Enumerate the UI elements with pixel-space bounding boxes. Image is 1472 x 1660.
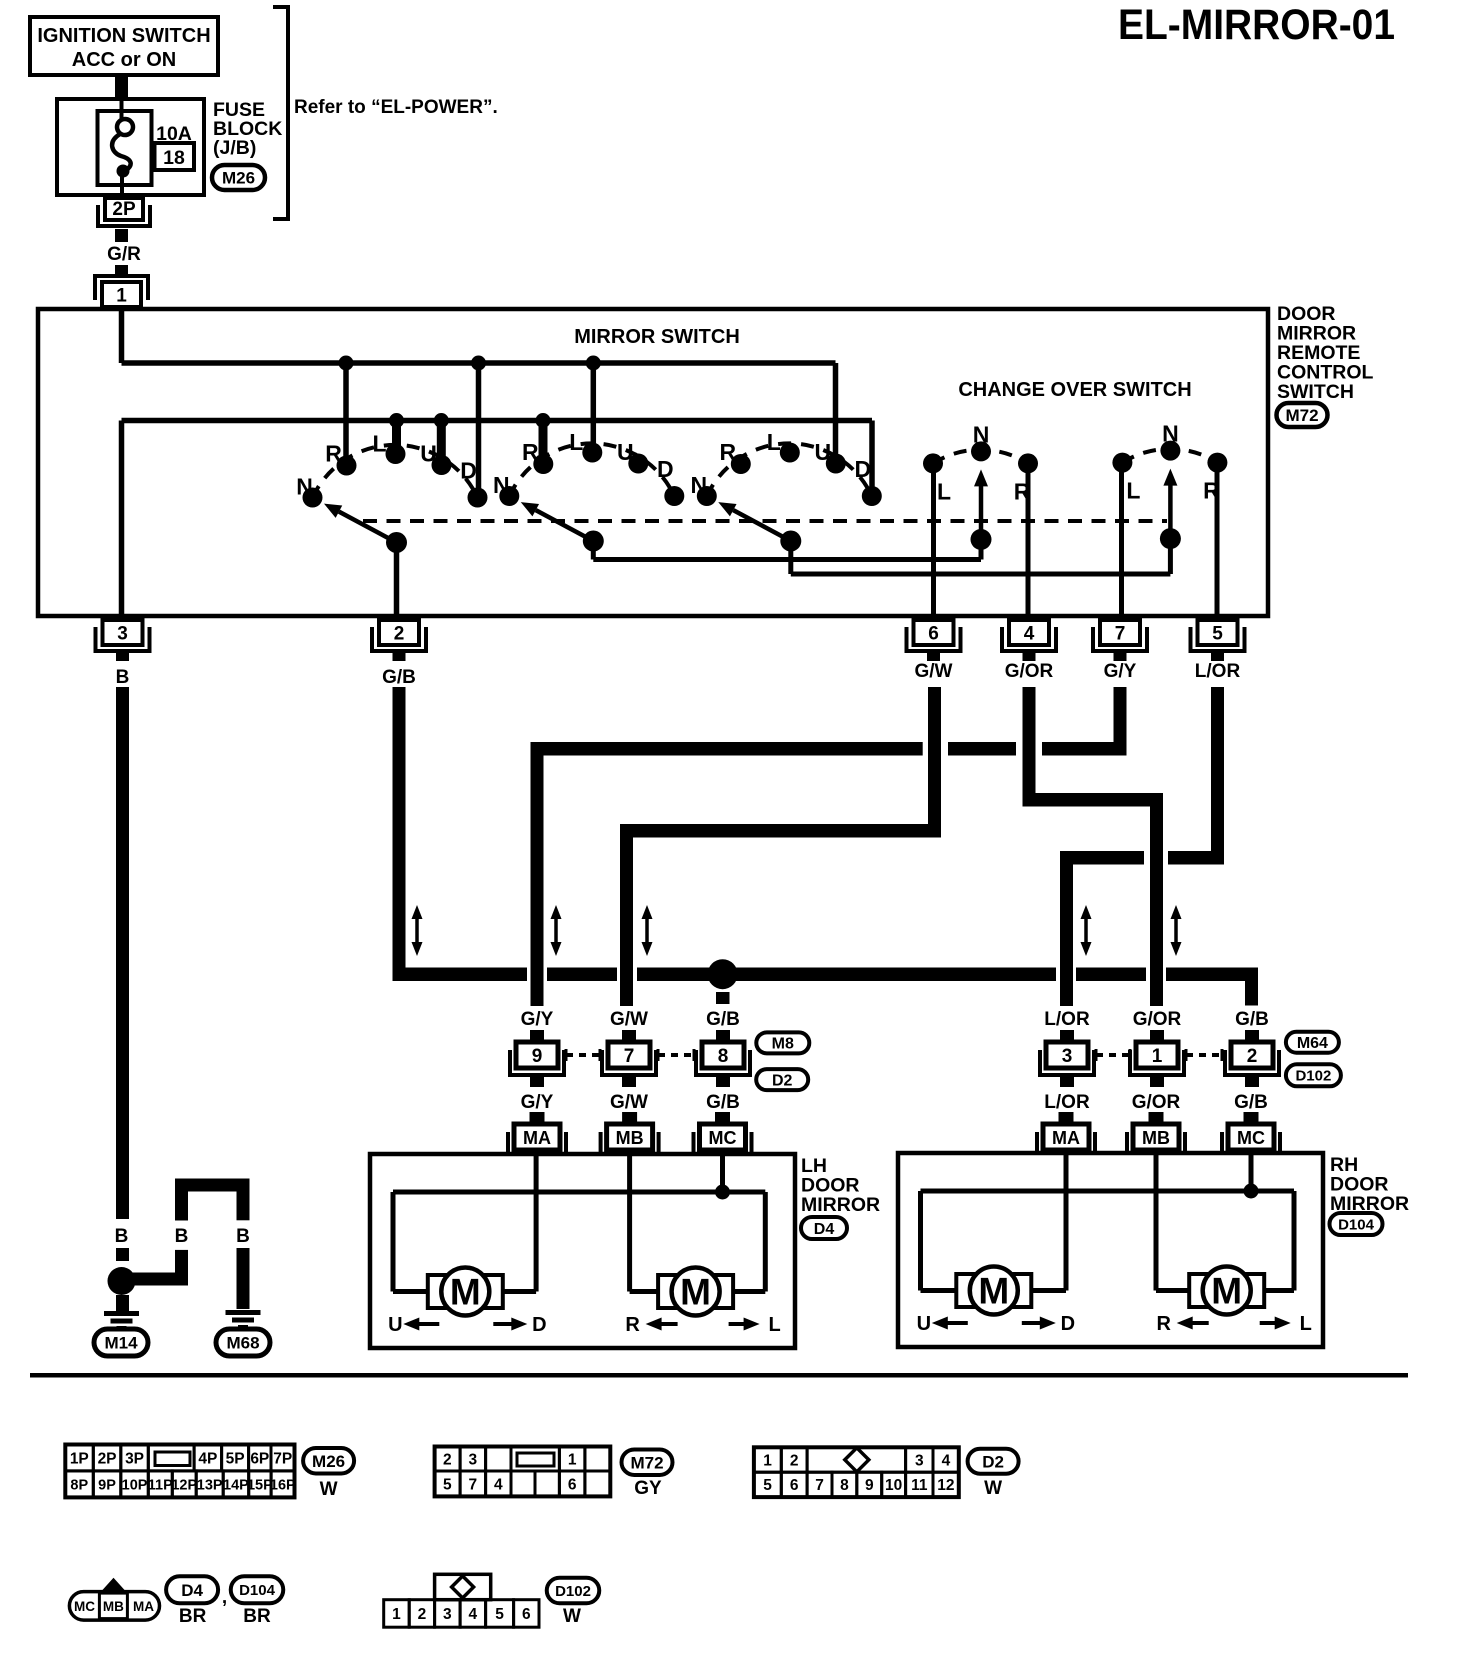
connector ref D102 oval <box>1286 1064 1341 1086</box>
stub pin2 <box>393 650 406 661</box>
change over switch pod B <box>1122 449 1217 463</box>
svg-text:U: U <box>814 439 831 465</box>
bus G/B horizontal seg5 <box>1166 968 1258 982</box>
svg-text:D2: D2 <box>982 1452 1004 1471</box>
svg-text:2P: 2P <box>98 1450 117 1467</box>
stub pin3 <box>116 650 129 661</box>
connector M8-9 <box>530 1030 544 1042</box>
svg-text:1: 1 <box>568 1451 577 1468</box>
svg-text:(J/B): (J/B) <box>213 137 256 159</box>
svg-text:11: 11 <box>911 1477 928 1494</box>
svg-text:M: M <box>680 1272 711 1313</box>
svg-text:L/OR: L/OR <box>1195 661 1241 682</box>
ignition switch box <box>30 17 218 75</box>
connector ref D2 footer oval <box>968 1449 1019 1474</box>
svg-text:5: 5 <box>1212 624 1223 645</box>
svg-text:D: D <box>460 458 477 484</box>
dashed neutral line <box>363 519 1167 523</box>
svg-text:D: D <box>657 456 674 482</box>
svg-text:G/W: G/W <box>610 1009 648 1030</box>
stub B left <box>116 1248 129 1261</box>
svg-text:6: 6 <box>928 624 939 645</box>
svg-text:W: W <box>984 1478 1002 1499</box>
svg-text:M72: M72 <box>630 1453 663 1472</box>
mirror switch pod 2 <box>509 443 674 496</box>
svg-text:,: , <box>222 1587 227 1608</box>
svg-text:12: 12 <box>937 1477 954 1494</box>
stub pin5 <box>1211 653 1224 661</box>
connector MC LH <box>715 1112 730 1124</box>
svg-text:L: L <box>937 478 951 504</box>
svg-text:7P: 7P <box>273 1450 292 1467</box>
svg-text:L: L <box>1126 478 1140 504</box>
connector ref M72 footer oval <box>622 1449 673 1475</box>
junction dot L2 tap <box>586 356 601 371</box>
svg-text:D2: D2 <box>772 1072 793 1089</box>
connector ref D2 oval <box>756 1069 808 1090</box>
svg-text:BR: BR <box>243 1606 271 1627</box>
svg-text:R: R <box>522 439 539 465</box>
bus G/B horizontal seg2 <box>547 968 617 982</box>
svg-text:L: L <box>372 431 386 457</box>
svg-text:10P: 10P <box>122 1477 148 1493</box>
svg-text:4: 4 <box>1024 624 1035 645</box>
junction dot G/B tap M8-8 <box>708 959 738 989</box>
svg-text:D104: D104 <box>239 1582 276 1599</box>
svg-text:U: U <box>420 441 437 467</box>
svg-text:G/B: G/B <box>1235 1009 1269 1030</box>
connector pin 4 <box>1009 620 1049 645</box>
svg-text:Refer to “EL-POWER”.: Refer to “EL-POWER”. <box>294 97 498 118</box>
svg-text:1: 1 <box>1152 1046 1163 1067</box>
connector face M26 <box>65 1445 294 1498</box>
svg-text:MC: MC <box>709 1128 737 1148</box>
wire RA to pin 4 <box>1026 463 1031 616</box>
connector pin 7 <box>1100 620 1140 645</box>
svg-text:W: W <box>563 1606 581 1627</box>
svg-text:18: 18 <box>163 147 185 169</box>
connector 2P <box>105 198 143 220</box>
connector M64-1 <box>1150 1030 1164 1042</box>
svg-text:U: U <box>388 1314 402 1336</box>
svg-text:U: U <box>917 1313 931 1335</box>
svg-text:D: D <box>532 1314 546 1336</box>
arrow wire G/Y continues <box>554 915 558 946</box>
svg-text:1: 1 <box>116 286 127 307</box>
connector ref M72 oval <box>1277 403 1328 427</box>
mirror switch pod 3 <box>707 443 872 496</box>
svg-text:M8: M8 <box>772 1036 794 1053</box>
svg-text:1: 1 <box>392 1606 401 1623</box>
svg-text:L: L <box>1300 1313 1312 1335</box>
svg-text:MB: MB <box>103 1599 124 1614</box>
svg-text:4: 4 <box>494 1476 503 1493</box>
svg-text:9: 9 <box>532 1046 543 1067</box>
connector 1 into M72 <box>95 276 148 300</box>
svg-text:M26: M26 <box>222 169 255 188</box>
wire B jumper <box>115 1273 187 1286</box>
wire G/OR pin4 to M64-1 <box>1023 687 1036 807</box>
stub pin7 <box>1114 653 1127 661</box>
svg-text:7: 7 <box>469 1476 478 1493</box>
connector ref M26 oval <box>212 165 265 190</box>
svg-text:MA: MA <box>523 1128 551 1148</box>
svg-text:8P: 8P <box>70 1477 88 1493</box>
connector MB LH <box>622 1112 637 1124</box>
svg-text:N: N <box>493 472 510 498</box>
svg-text:MB: MB <box>1142 1128 1170 1148</box>
arrow wire G/W continues <box>645 915 649 946</box>
svg-text:G/B: G/B <box>706 1009 740 1030</box>
wire G/W pin6 to M8-7 <box>928 687 941 837</box>
connector ref D4 footer oval <box>166 1576 218 1603</box>
svg-text:L/OR: L/OR <box>1044 1009 1090 1030</box>
svg-text:D102: D102 <box>1295 1068 1331 1085</box>
svg-text:U: U <box>617 439 634 465</box>
wire pod1 pivot to pin 2 <box>394 543 400 617</box>
svg-text:1: 1 <box>763 1452 772 1469</box>
wire ignition switch to fuse block <box>115 75 128 101</box>
arrow wire B continues <box>415 915 419 946</box>
stub B right <box>237 1248 250 1309</box>
connector MB RH <box>1149 1112 1164 1124</box>
svg-text:N: N <box>973 421 990 447</box>
junction dot ground <box>108 1267 136 1295</box>
connector ref D102 footer oval <box>547 1578 600 1604</box>
connector MA LH <box>530 1112 545 1124</box>
svg-text:L: L <box>768 1314 780 1336</box>
svg-text:12P: 12P <box>171 1477 197 1493</box>
junction dot R1 tap <box>339 356 354 371</box>
svg-text:2: 2 <box>790 1452 799 1469</box>
svg-text:G/OR: G/OR <box>1133 1009 1182 1030</box>
svg-text:MC: MC <box>74 1599 95 1614</box>
svg-text:D: D <box>854 456 871 482</box>
wire L/OR pin5 to M64-3 <box>1211 687 1224 864</box>
svg-text:5: 5 <box>495 1606 504 1623</box>
wire G/Y pin7 to M8-9 <box>1114 687 1127 756</box>
svg-text:D: D <box>1061 1313 1075 1335</box>
connector M8-7 <box>622 1030 636 1042</box>
svg-text:3: 3 <box>915 1452 924 1469</box>
refer bracket <box>273 7 288 219</box>
svg-text:D104: D104 <box>1338 1216 1375 1233</box>
svg-text:G/W: G/W <box>915 661 953 682</box>
svg-text:G/Y: G/Y <box>1104 661 1137 682</box>
ground ref M14 oval <box>94 1329 148 1356</box>
dash link 3-1 <box>1095 1049 1098 1061</box>
svg-text:BR: BR <box>179 1606 207 1627</box>
connector ref M64 oval <box>1286 1032 1339 1053</box>
stub pin6 <box>927 650 940 661</box>
svg-text:M72: M72 <box>1285 406 1318 425</box>
RH door mirror box D104 <box>898 1153 1323 1347</box>
svg-text:9: 9 <box>865 1477 874 1494</box>
dash link 1-2 <box>1185 1049 1188 1061</box>
svg-text:W: W <box>320 1479 338 1500</box>
svg-text:R: R <box>719 439 736 465</box>
svg-text:8: 8 <box>840 1477 849 1494</box>
wire G/B from pin2 to bus <box>393 687 406 975</box>
svg-text:ACC or ON: ACC or ON <box>72 49 176 71</box>
connector MC RH <box>1244 1112 1259 1124</box>
svg-text:L: L <box>767 429 781 455</box>
svg-text:11P: 11P <box>148 1477 173 1493</box>
svg-text:D4: D4 <box>814 1221 835 1238</box>
svg-text:7: 7 <box>815 1477 824 1494</box>
ground rail line2 <box>122 418 873 424</box>
connector ref M26 footer oval <box>303 1448 354 1474</box>
svg-text:EL-MIRROR-01: EL-MIRROR-01 <box>1118 1 1395 49</box>
arrow wire G/OR continues <box>1174 915 1178 946</box>
svg-text:6P: 6P <box>250 1450 269 1467</box>
ground ref M68 oval <box>216 1329 270 1356</box>
svg-text:D4: D4 <box>181 1581 203 1600</box>
svg-text:B: B <box>115 1226 129 1247</box>
svg-text:7: 7 <box>624 1046 635 1067</box>
svg-text:2P: 2P <box>112 199 136 220</box>
svg-text:9P: 9P <box>98 1477 116 1493</box>
svg-text:14P: 14P <box>223 1477 249 1493</box>
fuse 10A 18 <box>98 111 152 185</box>
power rail line1 <box>122 360 836 366</box>
svg-text:D102: D102 <box>555 1583 591 1600</box>
svg-text:3: 3 <box>1062 1046 1073 1067</box>
svg-text:M68: M68 <box>226 1334 259 1353</box>
svg-text:B: B <box>236 1226 250 1247</box>
svg-text:G/OR: G/OR <box>1005 661 1054 682</box>
svg-text:B: B <box>175 1226 189 1247</box>
svg-text:GY: GY <box>634 1478 662 1499</box>
connector face MC-MB-MA <box>101 1578 126 1592</box>
wire LA to pin 6 <box>931 463 936 616</box>
arrow wire L/OR continues <box>1084 915 1088 946</box>
wire RB to pin 5 <box>1215 463 1220 616</box>
svg-text:MA: MA <box>1052 1128 1080 1148</box>
svg-text:M64: M64 <box>1297 1035 1328 1052</box>
svg-text:2: 2 <box>418 1606 427 1623</box>
svg-text:B: B <box>116 667 130 688</box>
bus G/B horizontal seg1 <box>393 968 528 982</box>
svg-text:L/OR: L/OR <box>1044 1092 1090 1113</box>
stub pin4 <box>1023 653 1036 661</box>
door mirror remote control switch box M72 <box>38 309 1268 616</box>
svg-text:3: 3 <box>469 1451 478 1468</box>
svg-text:5: 5 <box>443 1476 452 1493</box>
connector M64-3 <box>1060 1030 1074 1042</box>
svg-text:N: N <box>1162 421 1179 447</box>
svg-text:N: N <box>690 472 707 498</box>
connector face M72 <box>435 1447 611 1497</box>
svg-text:G/Y: G/Y <box>521 1092 554 1113</box>
svg-text:5P: 5P <box>226 1450 245 1467</box>
svg-text:6: 6 <box>522 1606 531 1623</box>
wire LB to pin 7 <box>1119 463 1124 616</box>
svg-text:MB: MB <box>616 1128 644 1148</box>
svg-text:2: 2 <box>1247 1046 1258 1067</box>
svg-text:7: 7 <box>1115 624 1126 645</box>
svg-text:4: 4 <box>469 1606 478 1623</box>
svg-text:R: R <box>625 1314 640 1336</box>
svg-text:MIRROR: MIRROR <box>801 1194 880 1216</box>
connector M64-2 <box>1245 1030 1259 1042</box>
svg-text:IGNITION SWITCH: IGNITION SWITCH <box>37 25 210 47</box>
ground symbol M68 <box>226 1310 261 1315</box>
wire G/R <box>115 229 128 242</box>
svg-text:3P: 3P <box>125 1450 144 1467</box>
svg-text:4P: 4P <box>198 1450 217 1467</box>
svg-text:2: 2 <box>443 1451 452 1468</box>
svg-text:8: 8 <box>718 1046 729 1067</box>
svg-text:3: 3 <box>443 1606 452 1623</box>
junction dot D1 tap <box>471 356 486 371</box>
svg-text:G/R: G/R <box>107 244 141 265</box>
connector ref D4 oval <box>801 1217 847 1239</box>
connector face D2 <box>754 1447 959 1497</box>
svg-text:G/B: G/B <box>706 1092 740 1113</box>
svg-text:13P: 13P <box>197 1477 223 1493</box>
svg-text:10: 10 <box>885 1477 902 1494</box>
connector face D102 <box>435 1574 491 1599</box>
connector M8-8 <box>716 1030 730 1042</box>
svg-text:MA: MA <box>133 1599 154 1614</box>
wire pod3 pivot to changeover B <box>788 541 793 574</box>
svg-text:5: 5 <box>763 1477 772 1494</box>
svg-text:N: N <box>296 474 313 500</box>
svg-text:6: 6 <box>790 1477 799 1494</box>
mirror switch pod 1 <box>313 445 478 498</box>
ground symbol M14 <box>104 1311 139 1316</box>
change over switch pod A <box>933 450 1028 464</box>
separator rule <box>30 1373 1408 1378</box>
svg-text:L: L <box>569 429 583 455</box>
connector ref D104 footer oval <box>231 1576 284 1603</box>
connector pin 2 <box>379 620 419 645</box>
wire pin1 drop <box>119 309 125 363</box>
svg-text:G/Y: G/Y <box>521 1009 554 1030</box>
stub to M14 ground <box>116 1295 129 1311</box>
bus G/B right drop to M64-2 <box>1245 968 1258 1006</box>
connector ref M8 oval <box>756 1032 809 1053</box>
svg-text:4: 4 <box>942 1452 951 1469</box>
svg-text:R: R <box>1156 1313 1171 1335</box>
wire pod2 pivot to changeover A <box>591 541 596 560</box>
svg-text:SWITCH: SWITCH <box>1277 381 1354 403</box>
svg-text:M14: M14 <box>104 1334 138 1353</box>
svg-text:M: M <box>450 1272 481 1313</box>
junction dot U1 tap <box>434 413 449 428</box>
connector pin 5 <box>1198 620 1238 645</box>
wire B vertical <box>116 687 129 1219</box>
svg-text:3: 3 <box>117 624 128 645</box>
LH door mirror box D4 <box>370 1154 795 1348</box>
svg-text:MC: MC <box>1237 1128 1265 1148</box>
svg-text:16P: 16P <box>270 1477 296 1493</box>
fuse block J/B box M26 <box>57 99 204 195</box>
svg-text:M: M <box>1211 1271 1242 1312</box>
svg-text:R: R <box>325 441 342 467</box>
connector pin 6 <box>914 620 954 645</box>
svg-text:MIRROR SWITCH: MIRROR SWITCH <box>574 326 740 348</box>
svg-text:G/B: G/B <box>382 667 416 688</box>
junction dot L1 tap <box>389 413 404 428</box>
svg-text:G/OR: G/OR <box>1132 1092 1181 1113</box>
svg-text:CHANGE OVER SWITCH: CHANGE OVER SWITCH <box>958 379 1191 401</box>
dash link 9-7 <box>565 1049 568 1061</box>
connector MA RH <box>1059 1112 1074 1124</box>
svg-text:2: 2 <box>394 624 405 645</box>
dash link 7-8 <box>657 1049 660 1061</box>
svg-text:G/B: G/B <box>1234 1092 1268 1113</box>
svg-text:G/W: G/W <box>610 1092 648 1113</box>
svg-text:1P: 1P <box>70 1450 89 1467</box>
bus G/B horizontal seg4 <box>1076 968 1146 982</box>
connector pin 3 <box>103 620 143 645</box>
junction dot R2 tap <box>536 413 551 428</box>
svg-text:6: 6 <box>568 1476 577 1493</box>
svg-text:M: M <box>978 1271 1009 1312</box>
svg-text:M26: M26 <box>312 1452 345 1471</box>
bus G/B horizontal seg3 <box>637 968 1056 982</box>
connector ref D104 oval <box>1330 1213 1383 1235</box>
